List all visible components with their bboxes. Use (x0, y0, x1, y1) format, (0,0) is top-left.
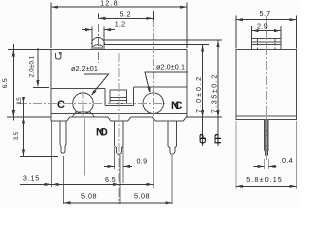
svg-text:5.2: 5.2 (120, 9, 132, 18)
svg-text:3.15: 3.15 (23, 173, 40, 182)
svg-text:6.5: 6.5 (105, 175, 116, 184)
svg-text:1.5: 1.5 (16, 97, 23, 105)
svg-text:3.5: 3.5 (13, 131, 20, 140)
svg-text:0.4: 0.4 (282, 156, 293, 165)
svg-text:C: C (57, 99, 65, 111)
svg-text:5.7: 5.7 (260, 9, 271, 18)
svg-text:2.9: 2.9 (257, 21, 268, 30)
svg-text:2.0±0.1: 2.0±0.1 (29, 55, 36, 77)
svg-text:ø2.0±0.1: ø2.0±0.1 (156, 63, 185, 72)
svg-text:5.08: 5.08 (134, 192, 150, 201)
svg-text:7.35±0.2: 7.35±0.2 (212, 75, 219, 114)
svg-text:FP: FP (213, 134, 223, 145)
svg-text:5.8±0.15: 5.8±0.15 (246, 175, 282, 184)
svg-text:1.2: 1.2 (115, 19, 126, 28)
svg-text:5.08: 5.08 (81, 192, 97, 201)
svg-text:6.5: 6.5 (2, 78, 9, 88)
svg-text:12.8: 12.8 (100, 0, 119, 7)
svg-text:0.9: 0.9 (137, 156, 148, 165)
svg-text:NC: NC (171, 100, 183, 112)
svg-text:NO: NO (96, 126, 108, 138)
svg-text:OP: OP (198, 134, 208, 145)
svg-text:ø2.2±01: ø2.2±01 (71, 64, 98, 73)
